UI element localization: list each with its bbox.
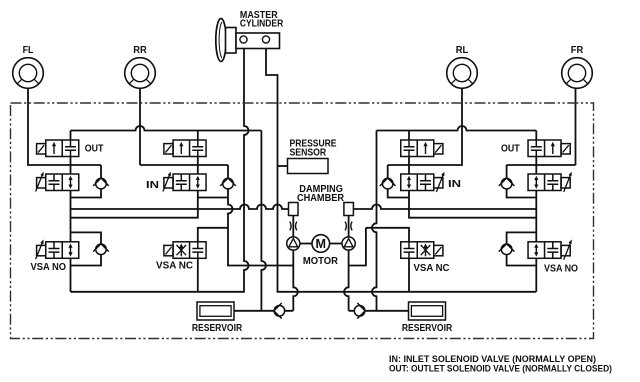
check valve FL bypass	[93, 178, 109, 189]
solenoid valve FR OUT	[528, 140, 570, 157]
wire: RR line IN valve to cross branch corner	[71, 191, 198, 218]
wire: RL wheel drop + wheel junction across to RL check loop	[388, 89, 462, 166]
solenoid valve RR IN	[163, 172, 206, 192]
check valve RL bypass	[380, 178, 396, 189]
svg-text:OUT: OUT	[85, 144, 104, 155]
wire: VSA NO left check loop	[71, 232, 102, 265]
svg-text:RL: RL	[456, 45, 469, 56]
svg-text:IN: IN	[146, 180, 159, 191]
svg-text:CYLINDER: CYLINDER	[240, 18, 284, 29]
solenoid valve RL IN	[401, 172, 445, 192]
wire: damping chamber feed left (bumps over MC1, return, MC2 lines)	[71, 205, 289, 209]
wire: OUT return manifold right (bump over RL wheel line)	[377, 126, 537, 131]
wire: left reservoir to suction check valve	[234, 310, 293, 312]
wire: RL line IN valve to cross branch corner	[409, 191, 536, 218]
svg-text:OUT: OUT	[501, 144, 520, 155]
solenoid valve RL OUT	[401, 140, 443, 157]
wire: right reservoir to suction check valve	[349, 310, 409, 312]
svg-text:CHAMBER: CHAMBER	[297, 193, 345, 204]
check valve FR bypass	[499, 178, 515, 189]
wire: FR line IN valve down to VSA NO valve	[535, 191, 537, 242]
wire: RL check loop	[388, 165, 409, 198]
wire: RR OUT valve riser	[197, 131, 199, 141]
solenoid valve VSA NC left	[164, 242, 206, 258]
wire: FR OUT valve riser	[535, 131, 537, 141]
wire: VSA NC left top stub	[198, 228, 228, 242]
solenoid valve FR IN	[528, 172, 572, 192]
solenoid valve VSA NO right	[528, 239, 572, 259]
wire: master cylinder circuit-2 line down and across to right feed (bumps over pump risers and right return)	[266, 43, 536, 292]
wire: right pump suction riser	[344, 250, 349, 311]
solenoid valve VSA NO left	[36, 239, 79, 259]
svg-text:RESERVOIR: RESERVOIR	[192, 323, 243, 334]
svg-text:VSA NC: VSA NC	[156, 260, 194, 271]
wire: VSA NO right drain	[535, 258, 537, 292]
wire: FL wheel drop + wheel junction to FL check loop	[28, 89, 101, 166]
master cylinder	[216, 19, 280, 62]
wire: VSA NO left drain	[70, 258, 72, 292]
wire: OUT return manifold left (bump over RR wheel line)	[71, 126, 262, 131]
wire: right suction link and VSA NC right top stub	[349, 228, 409, 266]
check valve VSA NO right	[499, 244, 515, 255]
svg-text:IN: IN	[448, 179, 461, 190]
check valve RR bypass	[220, 178, 236, 189]
svg-text:VSA NO: VSA NO	[544, 263, 578, 274]
check valve VSA NO left	[93, 244, 109, 255]
pump right	[342, 237, 355, 250]
wire: RR wheel drop + wheel junction to RR check loop	[140, 89, 228, 166]
reservoir left	[197, 302, 234, 320]
wire: VSA NC right drain	[408, 258, 410, 292]
wire: FL OUT valve riser	[70, 131, 72, 141]
wire: left pump output to damping chamber	[292, 216, 294, 237]
wire: pump-motor link left	[300, 243, 312, 245]
pump left	[287, 237, 300, 250]
wire: RR line OUT to IN valve	[197, 157, 199, 175]
orifice right	[345, 222, 352, 231]
svg-text:RESERVOIR: RESERVOIR	[402, 323, 453, 334]
wire: VSA NC left drain	[197, 258, 199, 292]
wire: left pump suction riser	[293, 250, 298, 311]
svg-text:RR: RR	[133, 45, 147, 56]
wire: right pump output to damping chamber	[348, 216, 350, 237]
wheel RR	[125, 58, 156, 89]
wheel FR	[562, 58, 593, 89]
svg-text:FR: FR	[571, 45, 584, 56]
svg-text:FL: FL	[23, 45, 34, 56]
wire: FL line OUT to IN valve	[70, 157, 72, 175]
wire: pressure sensor tap	[278, 165, 288, 167]
solenoid valve FL IN	[36, 172, 79, 192]
wire: FR line OUT to IN valve	[535, 157, 537, 175]
solenoid valve VSA NC right	[401, 242, 443, 258]
reservoir right	[409, 302, 446, 320]
wire: RL line OUT to IN valve	[408, 157, 410, 175]
check valve pump suction left (tilted)	[274, 303, 285, 319]
wire: FR check loop	[507, 165, 537, 198]
wire: RR check loop + suction branch down (arc over damping line)	[198, 165, 293, 266]
svg-text:VSA NC: VSA NC	[414, 263, 451, 274]
orifice left	[290, 222, 297, 231]
wire: MC port 1 stub	[243, 43, 245, 48]
wire: RL OUT valve riser	[408, 131, 410, 141]
wire: damping chamber feed right (bump over right return)	[354, 205, 537, 209]
wire: master cylinder circuit-1 line (arcs over return manifold and suction link) down to left feed	[71, 43, 249, 292]
wire: pump-motor link right	[330, 243, 342, 245]
wire: MC port 2 stub	[265, 43, 267, 48]
wire: FR wheel drop + wheel junction to FR check loop	[507, 89, 576, 166]
svg-text:SENSOR: SENSOR	[290, 147, 327, 158]
wire: FL line IN valve down to VSA NO valve	[70, 191, 72, 242]
damping chamber left	[289, 203, 299, 216]
wire: FL check loop	[71, 165, 102, 198]
svg-text:MOTOR: MOTOR	[303, 256, 339, 267]
solenoid valve RR OUT	[164, 140, 206, 157]
svg-text:OUT: OUTLET SOLENOID VALVE (NO: OUT: OUTLET SOLENOID VALVE (NORMALLY CLO…	[389, 363, 612, 374]
svg-text:M: M	[316, 237, 327, 251]
wire: return drop to reservoir line (left)	[261, 131, 266, 311]
damping chamber right	[344, 203, 354, 216]
wheel FL	[13, 58, 44, 89]
dashed HCU border	[11, 103, 594, 339]
motor	[312, 235, 330, 253]
check valve pump suction right (tilted)	[354, 303, 365, 319]
pressure sensor	[288, 159, 329, 174]
wire: VSA NO right check loop	[507, 232, 537, 265]
wheel RL	[447, 58, 478, 89]
wire: return drop to reservoir line (right, arc over NC stub)	[372, 131, 377, 311]
svg-text:VSA NO: VSA NO	[31, 262, 67, 273]
solenoid valve FL OUT	[37, 140, 79, 157]
